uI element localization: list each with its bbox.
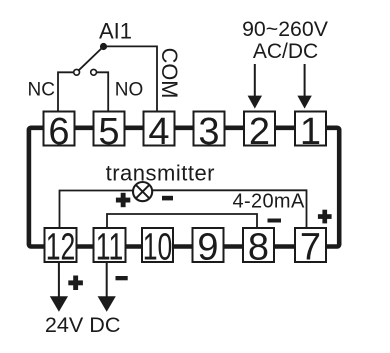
arrow into terminal 2 bbox=[254, 64, 256, 97]
svg-text:4-20mA: 4-20mA bbox=[233, 191, 305, 213]
svg-text:AC/DC: AC/DC bbox=[253, 40, 318, 63]
switch arm AI1 bbox=[79, 47, 104, 71]
terminal 10 bbox=[142, 225, 173, 268]
svg-text:1: 1 bbox=[300, 111, 321, 153]
minus sign terminal 8 bbox=[268, 219, 282, 223]
svg-text:3: 3 bbox=[198, 111, 219, 153]
terminal 7 bbox=[295, 227, 326, 269]
transmitter symbol bbox=[133, 182, 152, 201]
svg-text:90~260V: 90~260V bbox=[242, 17, 329, 41]
plus sign 24V DC bbox=[68, 276, 83, 291]
svg-text:6: 6 bbox=[48, 111, 69, 153]
switch contact NO bbox=[91, 69, 97, 75]
terminal 5 bbox=[94, 111, 125, 153]
wire NC to terminal 6 bbox=[58, 72, 74, 111]
svg-text:11: 11 bbox=[96, 225, 124, 268]
svg-text:NC: NC bbox=[28, 80, 55, 101]
switch contact NC bbox=[74, 69, 80, 75]
svg-text:24V DC: 24V DC bbox=[45, 312, 121, 337]
minus sign 24V DC bbox=[116, 276, 128, 280]
wire transmitter - to terminal 7 bbox=[152, 190, 306, 228]
switch common dot bbox=[100, 43, 107, 50]
minus sign transmitter bbox=[162, 196, 173, 201]
svg-text:NO: NO bbox=[115, 80, 144, 101]
wire NO to terminal 5 bbox=[96, 72, 108, 111]
terminal 4 bbox=[144, 111, 175, 153]
svg-text:transmitter: transmitter bbox=[106, 161, 215, 186]
wire 4-20mA terminal 11 to terminal 8 bbox=[107, 214, 257, 228]
svg-text:12: 12 bbox=[46, 225, 76, 268]
wire transmitter + from terminal 12 bbox=[60, 191, 134, 229]
terminal 6 bbox=[44, 111, 75, 153]
svg-text:9: 9 bbox=[197, 227, 218, 269]
svg-text:8: 8 bbox=[248, 227, 269, 269]
terminal 3 bbox=[194, 111, 225, 153]
arrow 24V DC - from terminal 11 bbox=[106, 262, 108, 298]
plus sign terminal 7 bbox=[318, 210, 332, 224]
terminal 12 bbox=[45, 225, 77, 268]
terminal 1 bbox=[295, 111, 326, 153]
svg-text:7: 7 bbox=[300, 227, 321, 269]
svg-text:AI1: AI1 bbox=[99, 18, 132, 43]
arrow into terminal 1 bbox=[304, 64, 306, 97]
plus sign transmitter bbox=[116, 193, 130, 207]
svg-text:COM: COM bbox=[157, 48, 182, 99]
wire COM to terminal 4 bbox=[104, 46, 158, 111]
terminal 8 bbox=[243, 227, 274, 269]
terminal 2 bbox=[244, 111, 275, 153]
svg-text:10: 10 bbox=[143, 225, 173, 268]
svg-text:4: 4 bbox=[148, 111, 169, 153]
svg-text:2: 2 bbox=[249, 111, 270, 153]
device outline bbox=[29, 128, 339, 247]
svg-text:5: 5 bbox=[98, 111, 119, 153]
terminal 11 bbox=[94, 225, 126, 268]
arrow 24V DC + from terminal 12 bbox=[58, 262, 60, 298]
terminal 9 bbox=[193, 227, 224, 269]
